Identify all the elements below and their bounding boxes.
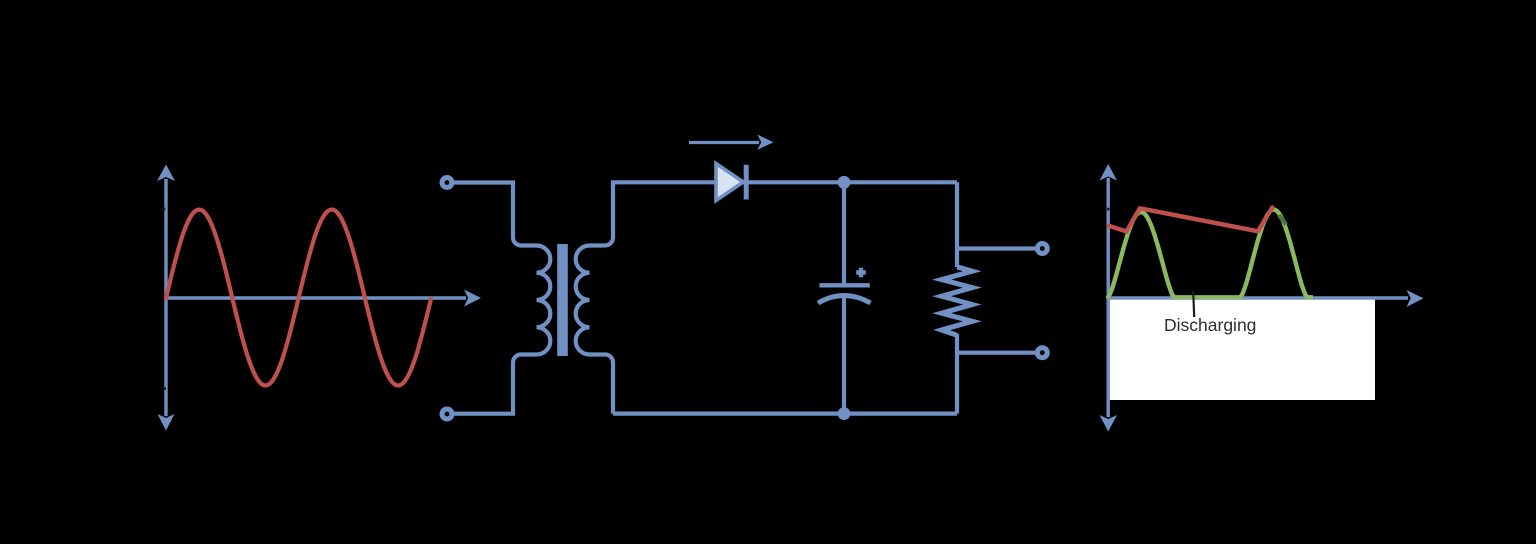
wire: top output branch: [957, 246, 1036, 250]
input terminal top: [440, 175, 455, 190]
rectified hump 2 (green): [1241, 210, 1308, 298]
input graph horizontal axis: [166, 290, 481, 307]
dark shading on hump 2 fall: [1279, 215, 1286, 225]
diode D1: [716, 164, 746, 201]
capacitor C1 curved plate: [818, 296, 871, 304]
wire: secondary bottom to bottom rail: [590, 355, 614, 414]
transformer primary winding: [537, 246, 551, 355]
capacitor C1 top plate: [819, 283, 869, 287]
current direction arrow: [689, 135, 774, 150]
input terminal bottom: [440, 407, 455, 422]
wire: top rail down to resistor: [955, 182, 959, 267]
junction node top (capacitor tap): [838, 176, 851, 189]
transformer core: [557, 244, 568, 356]
capacitor C1 bottom lead: [842, 295, 846, 414]
wire: bottom input terminal to primary: [453, 355, 537, 414]
rectified hump 1 (green): [1108, 212, 1174, 297]
output graph white panel: [1109, 300, 1375, 401]
tick mark (output axis): [1107, 208, 1110, 211]
wire: diode cathode to load corner (top rail): [743, 180, 958, 184]
output terminal top: [1035, 241, 1050, 256]
svg-text:Discharging: Discharging: [1164, 315, 1256, 335]
leader line to Discharging label: [1193, 291, 1194, 317]
green flat segment (discharging region): [1172, 295, 1242, 299]
capacitor C1 top lead: [842, 182, 846, 284]
input sine waveform: [166, 210, 431, 386]
wire: top input terminal to primary: [453, 183, 537, 246]
transformer secondary winding: [576, 246, 590, 355]
wire: bottom output branch: [957, 351, 1036, 355]
output graph vertical axis: [1100, 164, 1118, 432]
tick mark upper (input axis): [163, 208, 166, 211]
junction node bottom: [838, 407, 851, 420]
tick mark lower (input axis): [163, 387, 166, 390]
output graph horizontal axis: [1108, 290, 1423, 307]
capacitor polarity dot: [856, 268, 866, 278]
wire: resistor bottom to bottom rail: [955, 334, 959, 414]
bottom rail wire: [613, 412, 957, 416]
input graph vertical axis: [157, 165, 175, 431]
capacitor voltage curve (red discharge line): [1109, 208, 1272, 232]
resistor R1 (load): [942, 267, 973, 335]
output terminal bottom: [1035, 345, 1050, 360]
wire: secondary top to diode anode: [590, 182, 717, 245]
green flat segment right: [1305, 295, 1313, 299]
